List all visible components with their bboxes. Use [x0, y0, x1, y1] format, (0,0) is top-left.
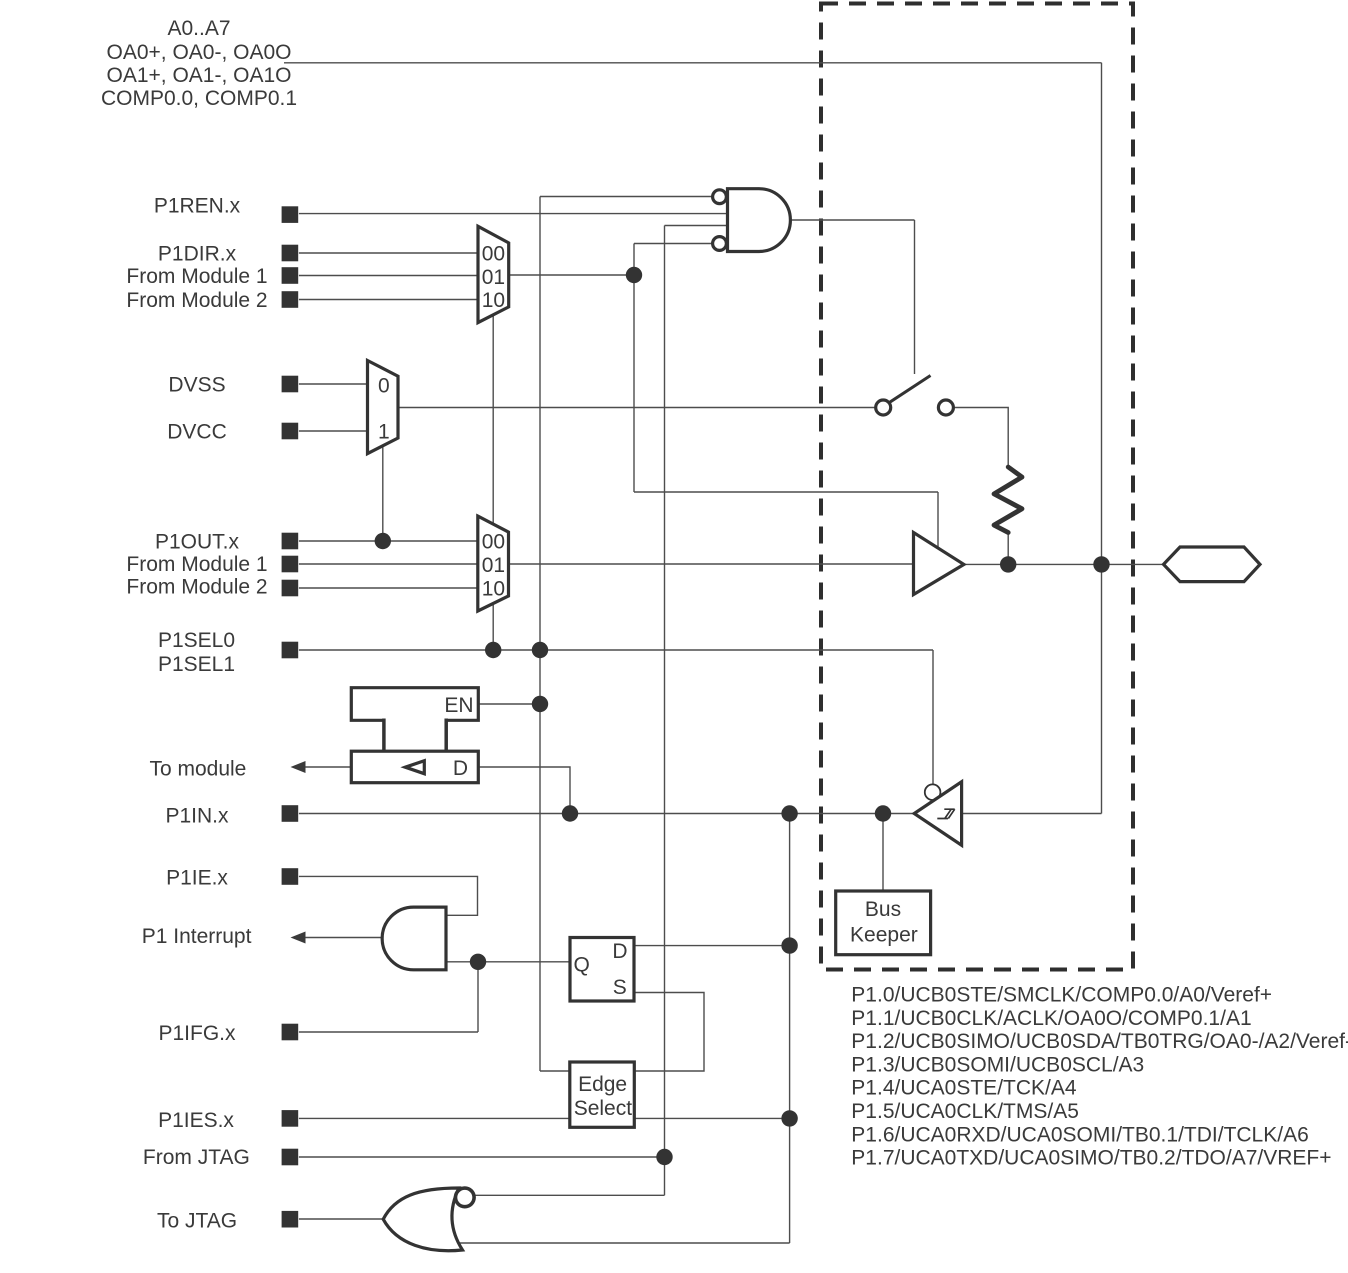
junction dot EN	[532, 696, 548, 712]
svg-text:01: 01	[482, 266, 505, 289]
input latch neck left wall	[382, 719, 386, 752]
input latch D lower box	[351, 751, 478, 783]
wire P1SEL drop to Schmitt enable	[932, 650, 934, 785]
pin pad hexagon	[1164, 547, 1261, 582]
wire buffer enable horizontal	[634, 491, 938, 493]
svg-text:00: 00	[482, 530, 505, 553]
switch lever	[889, 376, 931, 403]
switch contact right	[938, 400, 953, 415]
junction dot P1SEL b	[532, 642, 548, 658]
svg-text:P1OUT.x: P1OUT.x	[155, 531, 240, 554]
mux P1DIR (00/01/10)	[478, 226, 509, 322]
wire P1REN	[299, 213, 727, 215]
svg-text:To JTAG: To JTAG	[157, 1209, 237, 1232]
port square From Module 2 out	[282, 580, 299, 597]
junction dot mux1 output	[626, 267, 642, 283]
junction dot Q node	[470, 954, 486, 970]
svg-text:P1.4/UCA0STE/TCK/A4: P1.4/UCA0STE/TCK/A4	[851, 1077, 1077, 1100]
wire pad line to pin	[963, 563, 1163, 565]
port square DVCC	[282, 423, 299, 440]
port square From Module 2 dir	[282, 291, 299, 308]
wire resistor lower lead	[1007, 533, 1009, 565]
wire stub to NAND lower bubble	[634, 243, 712, 245]
svg-text:10: 10	[482, 578, 505, 601]
interrupt flag flip-flop Q/D/S	[570, 938, 634, 1002]
wire right return bus vertical	[789, 814, 791, 1244]
wire direction node vertical	[633, 244, 635, 493]
svg-text:1: 1	[378, 420, 390, 443]
port square P1OUT	[282, 533, 299, 550]
port square P1IFG	[282, 1024, 299, 1041]
svg-text:COMP0.0, COMP0.1: COMP0.0, COMP0.1	[101, 87, 297, 110]
interrupt AND gate	[382, 907, 446, 970]
port square P1IES	[282, 1110, 299, 1127]
wire P1IFG riser	[477, 962, 479, 1032]
svg-text:P1IFG.x: P1IFG.x	[158, 1022, 236, 1045]
port square P1IE	[282, 868, 299, 885]
svg-text:Keeper: Keeper	[850, 923, 918, 946]
svg-text:S: S	[613, 976, 627, 999]
svg-text:OA0+, OA0-, OA0O: OA0+, OA0-, OA0O	[107, 41, 292, 64]
wire analog bus horizontal	[284, 62, 1102, 64]
port square From JTAG	[282, 1149, 299, 1166]
svg-text:P1DIR.x: P1DIR.x	[158, 243, 237, 266]
wire From Module 1 (out)	[299, 563, 478, 565]
bus keeper box	[836, 891, 931, 955]
port square P1SEL	[282, 642, 299, 659]
svg-text:DVSS: DVSS	[168, 374, 225, 397]
resistor (pullup/pulldown)	[994, 467, 1022, 533]
wire FF D input	[634, 945, 790, 947]
svg-text:P1REN.x: P1REN.x	[154, 195, 241, 218]
input latch neck right wall	[444, 719, 448, 752]
port square P1DIR	[282, 245, 299, 262]
port square To JTAG	[282, 1211, 299, 1228]
wire Schmitt input from pad	[962, 813, 1102, 815]
junction dot P1IN / return bus	[781, 805, 797, 821]
wire From Module 2 (dir)	[299, 299, 478, 301]
NAND input bubble bottom	[713, 237, 727, 251]
wire to XOR bubble	[475, 1194, 665, 1196]
svg-text:Bus: Bus	[865, 898, 901, 921]
wire mux2 output to switch	[398, 407, 876, 409]
wire mux select vertical	[492, 315, 494, 651]
svg-text:P1.7/UCA0TXD/UCA0SIMO/TB0.2/TD: P1.7/UCA0TXD/UCA0SIMO/TB0.2/TDO/A7/VREF+	[851, 1147, 1331, 1170]
wire XOR lower input	[459, 1242, 790, 1244]
wire edge select input stub	[540, 1070, 570, 1072]
wire P1IFG	[299, 1031, 478, 1033]
wire FF S loop	[634, 993, 704, 1072]
Schmitt hysteresis symbol	[937, 809, 954, 818]
junction dot latch D / P1IN	[562, 805, 578, 821]
svg-text:P1.2/UCB0SIMO/UCB0SDA/TB0TRG/O: P1.2/UCB0SIMO/UCB0SDA/TB0TRG/OA0-/A2/Ver…	[851, 1030, 1348, 1053]
JTAG OR input bubble	[456, 1188, 475, 1207]
wire switch to resistor	[953, 408, 1008, 468]
mux DVSS/DVCC (0/1)	[368, 361, 399, 454]
svg-text:P1.0/UCB0STE/SMCLK/COMP0.0/A0/: P1.0/UCB0STE/SMCLK/COMP0.0/A0/Veref+	[851, 984, 1272, 1007]
wire NAND input1 stub	[540, 196, 712, 198]
arrowhead P1 interrupt	[291, 932, 306, 944]
svg-text:0: 0	[378, 374, 390, 397]
latch direction triangle	[405, 761, 424, 774]
wire P1IN	[299, 813, 914, 815]
svg-text:From Module 2: From Module 2	[126, 576, 267, 599]
wire DVCC	[299, 430, 368, 432]
svg-text:D: D	[453, 757, 468, 780]
wire bus keeper drop	[882, 814, 884, 892]
svg-text:EN: EN	[444, 694, 473, 717]
NAND input bubble top	[713, 190, 727, 204]
junction dot P1OUT	[375, 533, 391, 549]
wire P1IES	[299, 1117, 790, 1119]
wire NAND input3 stub	[665, 225, 728, 227]
junction dot pad/analog	[1093, 556, 1109, 572]
junction dot P1SEL a	[485, 642, 501, 658]
svg-text:From JTAG: From JTAG	[143, 1146, 250, 1169]
wire DVSS	[299, 383, 368, 385]
svg-text:From Module 1: From Module 1	[126, 553, 267, 576]
svg-text:To module: To module	[149, 758, 246, 781]
output buffer triangle	[914, 533, 964, 595]
port square From Module 1 dir	[282, 267, 299, 284]
svg-text:P1IE.x: P1IE.x	[166, 867, 228, 890]
svg-text:P1IN.x: P1IN.x	[165, 804, 229, 827]
svg-text:From Module 2: From Module 2	[126, 289, 267, 312]
mux P1OUT (00/01/10)	[478, 516, 509, 611]
svg-text:00: 00	[482, 242, 505, 265]
wire latch D input	[479, 767, 571, 814]
junction dot From JTAG	[656, 1149, 672, 1165]
svg-text:10: 10	[482, 289, 505, 312]
wire select bus vertical	[539, 197, 541, 1072]
junction dot FF D	[781, 937, 797, 953]
svg-text:P1.5/UCA0CLK/TMS/A5: P1.5/UCA0CLK/TMS/A5	[851, 1100, 1079, 1123]
svg-text:OA1+, OA1-, OA1O: OA1+, OA1-, OA1O	[107, 64, 292, 87]
wire Q node	[446, 961, 570, 963]
svg-text:A0..A7: A0..A7	[167, 17, 230, 40]
Schmitt enable bubble	[925, 784, 941, 800]
svg-text:Edge: Edge	[578, 1073, 627, 1096]
wire switch control drop	[914, 220, 916, 374]
svg-text:DVCC: DVCC	[167, 421, 227, 444]
wire analog bus vertical to pad node	[1101, 63, 1103, 814]
wire P1OUT	[299, 540, 478, 542]
port square P1REN	[282, 206, 299, 223]
svg-text:D: D	[612, 940, 627, 963]
wire mux2 select stub	[382, 446, 384, 542]
switch contact left	[876, 400, 891, 415]
wire NAND output	[791, 219, 915, 221]
wire mux1 output	[509, 274, 635, 276]
port square DVSS	[282, 376, 299, 393]
arrowhead To module	[291, 761, 306, 773]
wire P1 interrupt output	[302, 937, 383, 939]
wire From Module 2 (out)	[299, 587, 478, 589]
junction dot resistor/pad	[1000, 556, 1016, 572]
wire From Module 1 (dir)	[299, 275, 478, 277]
svg-text:P1 Interrupt: P1 Interrupt	[142, 925, 252, 948]
svg-text:01: 01	[482, 554, 505, 577]
svg-text:P1.1/UCB0CLK/ACLK/OA0O/COMP0.1: P1.1/UCB0CLK/ACLK/OA0O/COMP0.1/A1	[851, 1007, 1251, 1030]
svg-text:Q: Q	[574, 953, 590, 976]
input latch EN top box	[351, 688, 478, 721]
svg-text:P1SEL0: P1SEL0	[158, 629, 235, 652]
svg-text:Select: Select	[574, 1097, 633, 1120]
svg-text:P1.3/UCB0SOMI/UCB0SCL/A3: P1.3/UCB0SOMI/UCB0SCL/A3	[851, 1053, 1144, 1076]
NAND gate (pull resistor enable)	[728, 189, 791, 252]
wire To module	[302, 766, 352, 768]
wire P1SEL	[299, 649, 933, 651]
dashed device boundary box	[821, 4, 1133, 970]
junction dot P1IES	[781, 1110, 797, 1126]
svg-text:P1IES.x: P1IES.x	[158, 1109, 234, 1132]
svg-text:P1SEL1: P1SEL1	[158, 653, 235, 676]
wire EN stub	[479, 703, 541, 705]
wire buffer enable drop	[937, 492, 939, 549]
port square P1IN	[282, 805, 299, 822]
wire P1IE	[299, 876, 478, 915]
Schmitt trigger input buffer	[914, 782, 961, 845]
wire JTAG bus vertical	[664, 226, 666, 1196]
wire P1DIR	[299, 252, 478, 254]
edge select box	[570, 1062, 635, 1127]
wire From JTAG	[299, 1156, 665, 1158]
junction dot bus keeper	[875, 805, 891, 821]
port square From Module 1 out	[282, 556, 299, 573]
svg-text:P1.6/UCA0RXD/UCA0SOMI/TB0.1/TD: P1.6/UCA0RXD/UCA0SOMI/TB0.1/TDI/TCLK/A6	[851, 1123, 1308, 1146]
svg-text:From Module 1: From Module 1	[126, 265, 267, 288]
wire mux3 output to output buffer	[509, 563, 914, 565]
JTAG OR gate	[383, 1188, 462, 1251]
wire To JTAG	[299, 1218, 384, 1220]
